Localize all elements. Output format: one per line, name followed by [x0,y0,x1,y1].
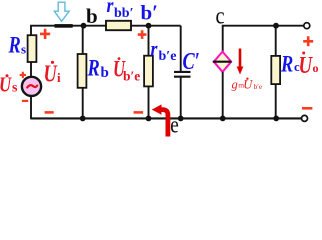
resistor Rb [78,54,87,88]
svg-text:C′: C′ [183,48,200,75]
wire: Rb lower [82,88,84,119]
wire: c corner to output node [223,26,304,53]
junction dot Rb bottom [80,116,86,122]
output terminal - circle [302,115,308,121]
svg-text:b′e: b′e [123,68,140,83]
node b junction dot [81,23,87,29]
wire: top rail from Rs corner to r_bb' [31,26,106,37]
svg-text:s: s [21,42,26,57]
wire: Rc lower [275,84,277,118]
polarity - of Ui [45,111,54,114]
wire: b branch upper [82,26,84,55]
output terminal + circle [304,23,310,29]
polarity + of Ui [40,29,50,39]
svg-text:b′e: b′e [159,49,177,64]
input direction hollow cyan arrow [54,2,69,21]
svg-text:s: s [12,81,18,96]
svg-text:o: o [313,61,319,75]
svg-text:g: g [232,77,238,91]
junction dot r_b'e bottom [146,116,152,122]
polarity + of Uo [303,36,313,46]
resistor Rc [271,56,280,84]
svg-text:b: b [101,65,109,81]
resistor r_b'e [144,56,153,87]
polarity - of Us [22,100,28,102]
capacitor C' top plate [174,71,191,73]
wire: Rs to source [30,62,32,77]
current direction red arrow [239,49,242,69]
junction dot Rc top [273,23,279,29]
svg-text:i: i [57,70,61,85]
wire: b' branch down [148,26,150,56]
polarity + of Us [20,72,26,78]
polarity - of U_b'e [134,111,144,114]
junction dot capacitor bottom [178,116,184,122]
wire: r_bb' to b' [131,25,181,27]
svg-text:b: b [86,4,98,28]
wire: thick emphasized input segment under arrow [55,24,73,28]
wire: source to ground rail [30,96,32,119]
junction dot controlled source bottom [220,116,226,122]
ground rail e [31,117,302,119]
wire: Rc upper [275,26,277,57]
svg-text:R: R [8,31,21,58]
wire: controlled source to ground rail [222,72,224,119]
svg-text:R: R [280,50,293,77]
svg-text:U: U [44,60,59,87]
svg-text:b′e: b′e [254,82,263,91]
svg-text:r: r [151,38,158,61]
svg-text:b′: b′ [141,1,159,25]
svg-text:r: r [107,0,114,17]
svg-text:R: R [87,55,100,82]
wire: corner down to capacitor [180,26,182,71]
node b' junction dot [146,23,152,29]
source tilde [27,85,37,87]
svg-text:U: U [0,74,12,97]
polarity - of Uo [302,107,312,110]
svg-text:U: U [299,52,314,79]
resistor Rs [28,35,37,62]
capacitor C' bottom plate [174,76,191,78]
svg-text:bb′: bb′ [114,6,134,21]
svg-text:e: e [170,111,179,137]
controlled source gmU_b'e diamond [214,52,231,72]
emitter red hook arrow [160,110,168,137]
wire: capacitor lower [180,77,182,119]
source Us sine source circle [22,77,41,96]
junction dot Rc bottom [273,116,279,122]
wire: r_b'e lower [148,86,150,118]
controlled source middle bar [213,61,232,63]
polarity + of U_b'e [138,30,147,39]
svg-text:c: c [216,2,225,29]
resistor r_bb' [106,21,131,30]
